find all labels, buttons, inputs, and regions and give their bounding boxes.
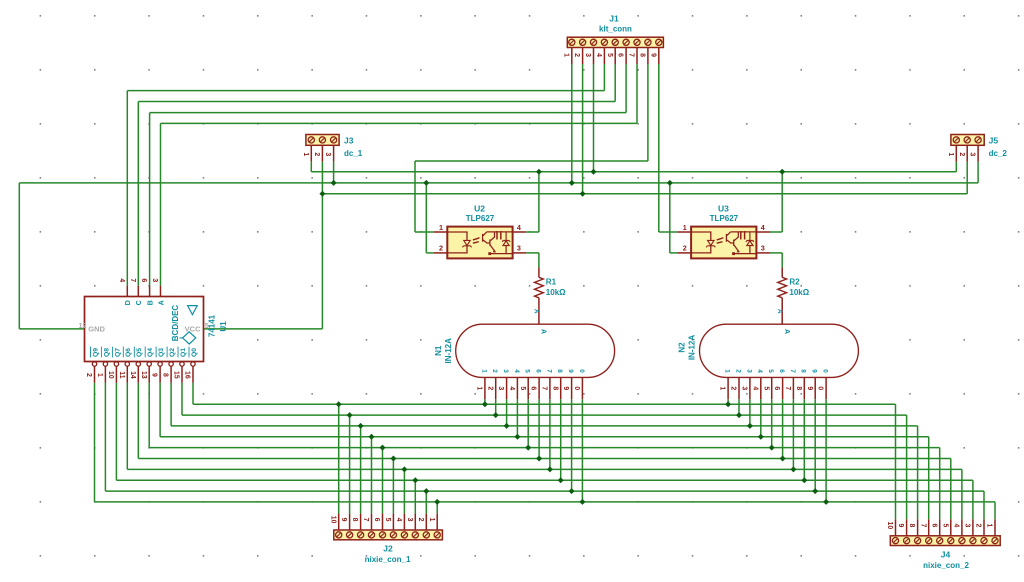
svg-text:10: 10 bbox=[886, 522, 893, 530]
svg-text:4: 4 bbox=[395, 518, 402, 522]
svg-text:2: 2 bbox=[958, 152, 965, 156]
svg-text:3: 3 bbox=[324, 152, 331, 156]
svg-text:1: 1 bbox=[683, 223, 687, 232]
svg-text:Q4: Q4 bbox=[147, 348, 154, 357]
svg-text:J4: J4 bbox=[941, 549, 951, 559]
svg-text:10: 10 bbox=[107, 371, 114, 379]
svg-text:11: 11 bbox=[118, 371, 125, 378]
svg-text:0: 0 bbox=[578, 369, 585, 373]
svg-text:9: 9 bbox=[562, 386, 569, 390]
svg-text:1: 1 bbox=[480, 369, 487, 373]
svg-text:9: 9 bbox=[811, 369, 818, 373]
svg-text:8: 8 bbox=[162, 373, 169, 377]
svg-text:0: 0 bbox=[817, 386, 824, 390]
svg-text:1: 1 bbox=[986, 523, 993, 527]
svg-text:4: 4 bbox=[595, 53, 602, 57]
svg-text:TLP627: TLP627 bbox=[710, 214, 739, 223]
svg-text:9: 9 bbox=[151, 373, 158, 377]
svg-text:7: 7 bbox=[545, 369, 552, 373]
svg-text:7: 7 bbox=[919, 523, 926, 527]
svg-text:1: 1 bbox=[476, 386, 483, 390]
svg-text:10kΩ: 10kΩ bbox=[789, 288, 809, 297]
svg-text:6: 6 bbox=[773, 386, 780, 390]
svg-text:4: 4 bbox=[953, 523, 960, 527]
svg-text:3: 3 bbox=[497, 386, 504, 390]
svg-text:6: 6 bbox=[140, 278, 147, 282]
svg-text:3: 3 bbox=[502, 369, 509, 373]
svg-text:BCD/DEC: BCD/DEC bbox=[171, 305, 180, 342]
svg-text:3: 3 bbox=[761, 244, 765, 253]
svg-text:J3: J3 bbox=[344, 136, 354, 146]
svg-text:5: 5 bbox=[519, 386, 526, 390]
svg-text:9: 9 bbox=[649, 53, 656, 57]
svg-text:2: 2 bbox=[439, 244, 443, 253]
svg-text:C: C bbox=[134, 300, 143, 305]
svg-text:Q8: Q8 bbox=[103, 348, 110, 357]
svg-text:3: 3 bbox=[964, 523, 971, 527]
svg-text:Q9: Q9 bbox=[92, 348, 99, 357]
svg-text:7: 7 bbox=[784, 386, 791, 390]
svg-text:nixie_con_1: nixie_con_1 bbox=[365, 555, 411, 564]
svg-text:3: 3 bbox=[406, 518, 413, 522]
svg-text:Q3: Q3 bbox=[158, 348, 165, 357]
svg-text:Q5: Q5 bbox=[136, 348, 143, 357]
svg-text:R1: R1 bbox=[546, 277, 557, 286]
svg-text:6: 6 bbox=[778, 369, 785, 373]
svg-text:5: 5 bbox=[762, 386, 769, 390]
svg-text:A: A bbox=[776, 309, 783, 314]
svg-text:1: 1 bbox=[562, 53, 569, 57]
svg-text:U2: U2 bbox=[474, 204, 485, 214]
svg-text:6: 6 bbox=[617, 53, 624, 57]
svg-text:3: 3 bbox=[745, 369, 752, 373]
svg-text:U1: U1 bbox=[219, 321, 228, 332]
svg-text:3: 3 bbox=[584, 53, 591, 57]
svg-text:8: 8 bbox=[800, 369, 807, 373]
svg-text:10: 10 bbox=[329, 516, 336, 524]
svg-text:5: 5 bbox=[606, 53, 613, 57]
svg-text:8: 8 bbox=[351, 518, 358, 522]
svg-text:R2: R2 bbox=[789, 277, 800, 286]
svg-text:Q2: Q2 bbox=[169, 348, 176, 357]
svg-text:D: D bbox=[123, 300, 132, 305]
svg-text:2: 2 bbox=[486, 386, 493, 390]
svg-text:1: 1 bbox=[428, 518, 435, 522]
svg-text:nixie_con_2: nixie_con_2 bbox=[923, 561, 969, 570]
svg-text:J5: J5 bbox=[989, 136, 999, 146]
svg-text:A: A bbox=[540, 329, 547, 334]
svg-text:A: A bbox=[533, 309, 540, 314]
svg-text:N2: N2 bbox=[678, 342, 687, 353]
svg-text:GND: GND bbox=[88, 324, 105, 333]
svg-text:VCC: VCC bbox=[185, 324, 201, 333]
svg-text:74141: 74141 bbox=[208, 314, 217, 337]
svg-text:7: 7 bbox=[541, 386, 548, 390]
svg-text:6: 6 bbox=[530, 386, 537, 390]
svg-text:dc_2: dc_2 bbox=[989, 149, 1008, 158]
svg-text:15: 15 bbox=[173, 371, 180, 379]
svg-text:2: 2 bbox=[573, 53, 580, 57]
svg-text:3: 3 bbox=[517, 244, 521, 253]
svg-text:14: 14 bbox=[129, 371, 136, 379]
svg-text:klt_conn: klt_conn bbox=[599, 24, 632, 33]
svg-text:1: 1 bbox=[947, 152, 954, 156]
svg-text:4: 4 bbox=[751, 386, 758, 390]
svg-text:dc_1: dc_1 bbox=[344, 149, 363, 158]
svg-text:9: 9 bbox=[897, 523, 904, 527]
svg-text:B: B bbox=[146, 300, 155, 305]
svg-text:0: 0 bbox=[822, 369, 829, 373]
svg-text:U3: U3 bbox=[718, 204, 729, 214]
svg-text:1: 1 bbox=[724, 369, 731, 373]
svg-text:9: 9 bbox=[567, 369, 574, 373]
svg-text:7: 7 bbox=[129, 278, 136, 282]
svg-text:TLP627: TLP627 bbox=[466, 214, 495, 223]
svg-text:2: 2 bbox=[491, 369, 498, 373]
svg-text:4: 4 bbox=[517, 223, 521, 232]
svg-text:IN-12A: IN-12A bbox=[688, 335, 697, 361]
svg-text:8: 8 bbox=[795, 386, 802, 390]
svg-text:Q0: Q0 bbox=[191, 348, 198, 357]
svg-text:7: 7 bbox=[628, 53, 635, 57]
svg-text:4: 4 bbox=[761, 223, 765, 232]
svg-text:1: 1 bbox=[302, 152, 309, 156]
svg-text:7: 7 bbox=[362, 518, 369, 522]
svg-text:8: 8 bbox=[908, 523, 915, 527]
svg-text:12: 12 bbox=[79, 321, 87, 330]
svg-text:IN-12A: IN-12A bbox=[444, 338, 453, 364]
svg-text:4: 4 bbox=[508, 386, 515, 390]
svg-text:6: 6 bbox=[535, 369, 542, 373]
svg-text:1: 1 bbox=[719, 386, 726, 390]
svg-text:4: 4 bbox=[118, 278, 125, 282]
svg-text:N1: N1 bbox=[434, 345, 443, 356]
svg-text:3: 3 bbox=[969, 152, 976, 156]
svg-text:3: 3 bbox=[151, 278, 158, 282]
svg-text:10kΩ: 10kΩ bbox=[546, 288, 566, 297]
svg-text:9: 9 bbox=[806, 386, 813, 390]
svg-text:J1: J1 bbox=[609, 13, 619, 23]
svg-text:2: 2 bbox=[85, 373, 92, 377]
svg-text:Q7: Q7 bbox=[114, 348, 121, 357]
svg-text:7: 7 bbox=[789, 369, 796, 373]
svg-text:2: 2 bbox=[975, 523, 982, 527]
svg-text:6: 6 bbox=[373, 518, 380, 522]
svg-text:8: 8 bbox=[556, 369, 563, 373]
svg-text:8: 8 bbox=[551, 386, 558, 390]
svg-text:16: 16 bbox=[184, 371, 191, 379]
svg-text:5: 5 bbox=[384, 518, 391, 522]
svg-text:6: 6 bbox=[930, 523, 937, 527]
svg-text:0: 0 bbox=[573, 386, 580, 390]
svg-text:4: 4 bbox=[756, 369, 763, 373]
svg-text:13: 13 bbox=[140, 371, 147, 379]
svg-text:J2: J2 bbox=[383, 543, 393, 553]
svg-text:5: 5 bbox=[941, 523, 948, 527]
svg-text:1: 1 bbox=[439, 223, 443, 232]
svg-text:A: A bbox=[156, 300, 165, 305]
svg-text:A: A bbox=[783, 329, 790, 334]
svg-text:2: 2 bbox=[313, 152, 320, 156]
svg-text:2: 2 bbox=[730, 386, 737, 390]
svg-text:5: 5 bbox=[524, 369, 531, 373]
svg-text:8: 8 bbox=[639, 53, 646, 57]
svg-text:1: 1 bbox=[96, 373, 103, 377]
svg-text:2: 2 bbox=[734, 369, 741, 373]
svg-text:5: 5 bbox=[767, 369, 774, 373]
svg-text:9: 9 bbox=[340, 518, 347, 522]
svg-text:Q6: Q6 bbox=[125, 348, 132, 357]
svg-text:4: 4 bbox=[513, 369, 520, 373]
svg-text:2: 2 bbox=[683, 244, 687, 253]
svg-text:2: 2 bbox=[417, 518, 424, 522]
svg-text:Q1: Q1 bbox=[180, 348, 187, 357]
svg-text:3: 3 bbox=[741, 386, 748, 390]
